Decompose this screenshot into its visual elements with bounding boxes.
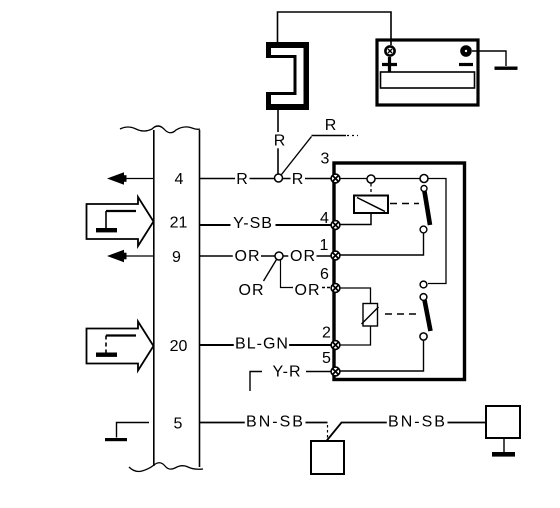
svg-text:2: 2 [322, 325, 331, 342]
svg-text:21: 21 [170, 215, 188, 232]
svg-text:BL-GN: BL-GN [235, 336, 289, 353]
svg-text:OR: OR [239, 282, 265, 299]
svg-text:R: R [236, 171, 249, 188]
svg-text:9: 9 [172, 249, 181, 266]
svg-text:4: 4 [175, 171, 184, 188]
svg-text:20: 20 [170, 338, 188, 355]
svg-text:4: 4 [320, 210, 329, 227]
svg-text:R: R [292, 171, 305, 188]
svg-text:OR: OR [290, 248, 316, 265]
svg-text:6: 6 [320, 266, 329, 283]
svg-text:R: R [274, 133, 287, 150]
svg-text:OR: OR [235, 248, 261, 265]
svg-text:3: 3 [321, 151, 330, 168]
svg-text:5: 5 [322, 350, 331, 367]
svg-text:BN-SB: BN-SB [246, 414, 305, 431]
svg-text:Y-SB: Y-SB [233, 215, 273, 232]
svg-text:R: R [325, 117, 338, 134]
svg-text:BN-SB: BN-SB [388, 414, 447, 431]
svg-text:OR: OR [295, 282, 321, 299]
svg-text:1: 1 [320, 237, 329, 254]
svg-text:Y-R: Y-R [272, 364, 301, 381]
svg-text:5: 5 [174, 416, 183, 433]
